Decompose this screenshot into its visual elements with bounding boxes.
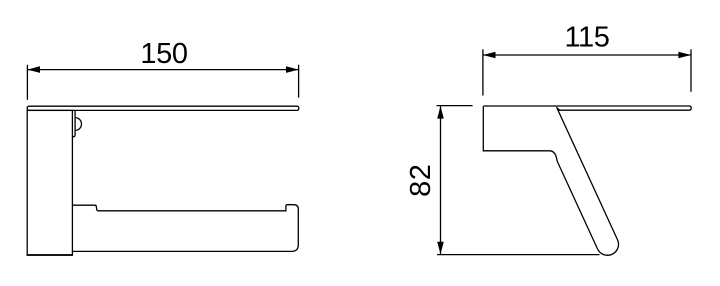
dim 82: dimension line (440, 106, 442, 254)
dim 82: bottom arrow (437, 242, 444, 255)
wall plate (front view) (27, 110, 72, 255)
dim 115: right extension line (690, 49, 692, 92)
dim 150: right arrow (286, 66, 299, 73)
roll-post clip detail (73, 111, 76, 137)
dim 115: dimension line (483, 54, 691, 56)
svg-text:150: 150 (140, 38, 187, 70)
dim 82: bottom extension line (437, 254, 600, 256)
roll arm (front view) (72, 205, 298, 252)
dim 115: right arrow (678, 52, 691, 59)
dim 115: left arrow (483, 52, 496, 59)
dim 82: top arrow (437, 106, 444, 119)
svg-text:115: 115 (564, 22, 609, 54)
dim 150: right extension line (298, 65, 300, 98)
dim 82: top extension line (437, 105, 473, 107)
clip dome arc (75, 118, 81, 131)
dim 115: left extension line (482, 49, 484, 95)
side profile body (483, 106, 618, 255)
dim 150: left arrow (27, 66, 40, 73)
dim 150: left extension line (26, 65, 28, 100)
svg-text:82: 82 (405, 164, 437, 197)
dim 150: dimension line (27, 69, 298, 71)
plate bottom edge (thicker) (27, 254, 73, 256)
arm/shelf junction wedge (556, 107, 560, 110)
shelf (front view, thin top bar) (27, 106, 299, 110)
side shelf top line (483, 106, 691, 110)
